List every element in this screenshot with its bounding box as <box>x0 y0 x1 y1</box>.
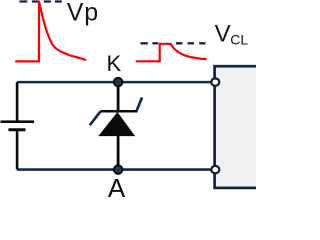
svg-text:V: V <box>215 20 231 47</box>
svg-text:K: K <box>107 51 122 76</box>
svg-text:Vp: Vp <box>67 0 99 27</box>
svg-text:CL: CL <box>230 31 248 47</box>
svg-text:A: A <box>108 173 126 197</box>
